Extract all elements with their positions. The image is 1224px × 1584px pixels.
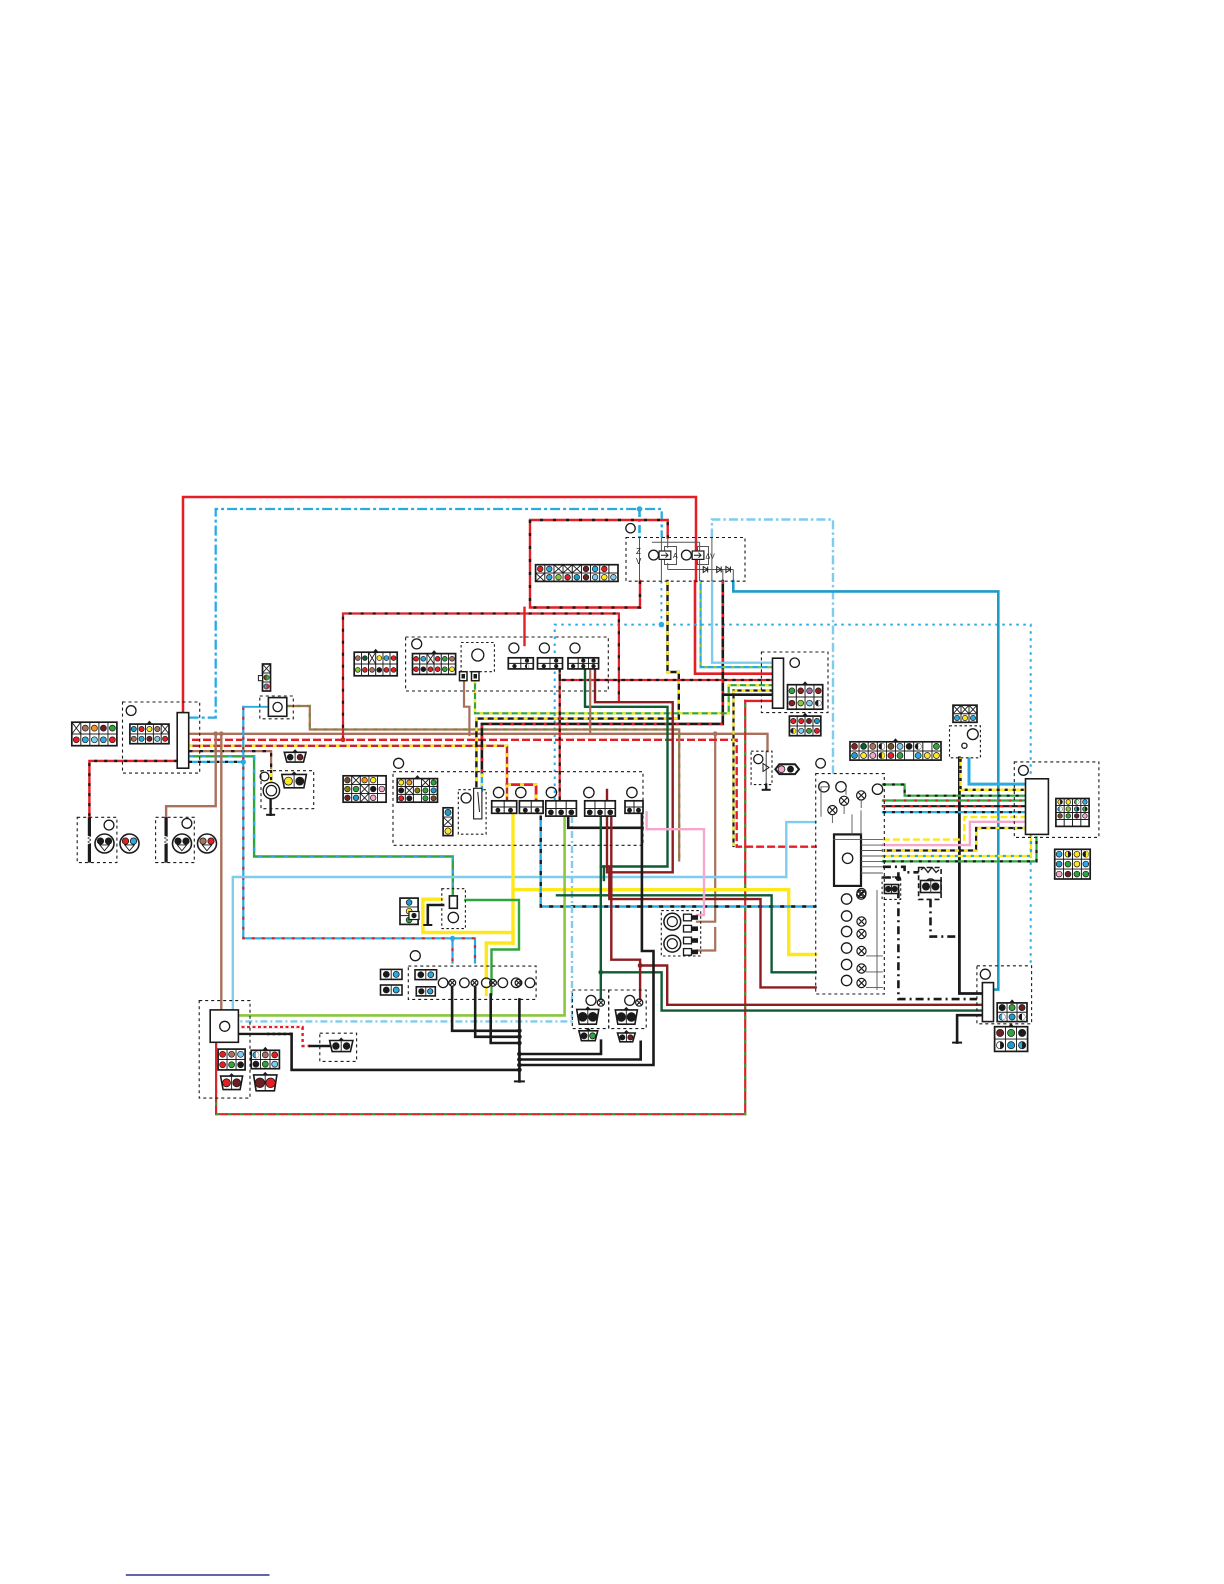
junction bus (517, 1041, 522, 1046)
wire R bar bottom row (745, 700, 772, 702)
diode chain (703, 567, 708, 573)
box joint connectors (408, 966, 536, 999)
turn signal 2 joint (636, 999, 643, 1006)
wire R bottom dash loop (216, 701, 745, 1114)
box meter CDI (816, 774, 885, 994)
wire B/R meter row (883, 805, 1026, 807)
circle CDI (842, 853, 852, 863)
circle key switch (472, 649, 484, 661)
wire R main to CDI bar (695, 581, 773, 674)
junction cyan (659, 622, 665, 628)
connector license 2pin (885, 885, 899, 894)
unit flasher relay (268, 698, 286, 717)
wire G/Y ignition to bar (475, 680, 773, 713)
wire L/W switch drop (239, 816, 572, 1021)
wire R/Y start switch (507, 785, 536, 801)
circle meter3 (872, 784, 882, 794)
circle ignition box ref (412, 639, 422, 649)
connector turn2 lower 2pin (618, 1030, 636, 1042)
wire R maroon coil (595, 669, 673, 872)
junction bus (517, 1063, 522, 1068)
meter lamp (857, 791, 866, 800)
connector fuse block 3 (568, 658, 599, 669)
wire Br/W flasher out (287, 706, 679, 861)
connector ignition 10pin (413, 650, 456, 674)
wire B dotted regulator (267, 1033, 292, 1036)
circle 20pin ref (816, 759, 826, 769)
circle sidestand diode ref (754, 755, 763, 764)
circle clutch switch (448, 912, 458, 922)
wire Br bundle row (189, 734, 768, 751)
circle meter1 (819, 782, 829, 792)
wire Y/B to bar (734, 689, 773, 691)
connector regulator 6pin B (251, 1047, 279, 1069)
CDI pin circle (841, 911, 851, 921)
horn (263, 782, 279, 798)
wire L cyan dotted bus (555, 625, 1031, 966)
CDI pin circle (841, 975, 851, 985)
wire Br regulator (220, 734, 222, 1010)
wire B turn1 to bus (519, 1041, 601, 1054)
wire R dotted pickup (239, 1026, 303, 1028)
relay contact 1 (659, 551, 671, 559)
relay internals (640, 538, 734, 582)
junction L/B (637, 506, 643, 512)
box clutch diode (458, 790, 486, 835)
wire B turn2 to bus (519, 1042, 640, 1060)
connector regulator 6pin A (218, 1049, 245, 1070)
wire B/W resistor feed (883, 867, 919, 873)
wire Lime switch drop (239, 816, 565, 1015)
bar CDI connector (773, 658, 784, 708)
wire B/R relay drop (482, 581, 723, 774)
circle handlebar ref (394, 758, 404, 768)
wire B regulator bus down (292, 1034, 520, 1070)
wire B/Y relay drop (476, 581, 678, 790)
junction L/R joint (450, 936, 455, 941)
CDI pin circle (841, 926, 851, 936)
wire L/B relay to bar (701, 581, 773, 667)
relay contact 2 (692, 551, 704, 559)
connector regulator 2pin B (254, 1072, 277, 1091)
junction bus (517, 1068, 522, 1073)
box headlight left (77, 817, 117, 862)
turn signal 2 lamp (625, 995, 635, 1005)
joint connector (438, 978, 448, 988)
circle switch3 ref (546, 787, 556, 797)
bullet joint (449, 979, 456, 986)
switch block start (625, 801, 643, 814)
wire R/W handlebar branch (343, 614, 619, 740)
circle ECU ref (1019, 766, 1029, 776)
footer rule (126, 1574, 270, 1576)
connector joint 4pin B (416, 987, 435, 996)
joint connector (525, 978, 535, 988)
wire R maroon turnsignal (611, 817, 640, 999)
ground rear (952, 1042, 962, 1044)
switch block dimmer (519, 801, 543, 814)
wire Dg to rear bar (601, 972, 983, 1010)
wire R maroon to rear bar (640, 966, 982, 1005)
wire G joint below (490, 988, 492, 995)
connector horn 2pin (284, 749, 306, 762)
wire R maroon long to CDI (609, 867, 815, 988)
wire B clutch ground (428, 905, 443, 924)
junction Br regulator (219, 731, 224, 736)
wire Dg long upper (603, 867, 605, 881)
circle switch4 ref (584, 787, 594, 797)
wire Y ECU upper (961, 770, 1026, 790)
turn signal 1 joint (597, 999, 604, 1006)
circle fuse2 ref (539, 643, 549, 653)
headlight resistor lead (88, 817, 91, 862)
connector main harness 18pin (536, 565, 618, 582)
connector turn2 2pin (615, 1007, 637, 1024)
junction Dg (598, 970, 603, 975)
wire G clutch switch (465, 900, 519, 978)
bullet joint (471, 979, 478, 986)
wire R/B fuse loop (530, 520, 668, 608)
wire Br headlight right (166, 734, 216, 818)
connector handlebar left 12pin (343, 776, 386, 802)
wire Y neutral jog (883, 817, 1026, 840)
box sidestand diode (751, 751, 772, 784)
joint connector (498, 978, 508, 988)
joint connector (511, 978, 521, 988)
unit clutch diode (449, 896, 457, 908)
box ignition switch (406, 637, 609, 691)
box main switch (123, 702, 200, 773)
wire B/W tail feed (898, 872, 977, 999)
meter lamp (840, 796, 849, 805)
box ignition coils (661, 911, 700, 956)
junction tail (896, 876, 901, 881)
circle switch5 ref (627, 787, 637, 797)
connector sidestand T 3pin (400, 898, 418, 924)
circle fuse3 ref (570, 643, 580, 653)
wire G/B meter row (883, 837, 1037, 861)
wire Br conn3 drop (589, 669, 591, 734)
circle switch1 ref (493, 787, 503, 797)
connector main switch 10pin A (72, 722, 117, 746)
meter lamp (828, 806, 837, 815)
connector accessory tab (258, 676, 262, 681)
circle relay box ref (626, 524, 635, 533)
circle horn ref (260, 772, 269, 781)
wire B regulator to bus (239, 1033, 292, 1035)
headlight resistor lead (165, 817, 168, 862)
box ignition inner (461, 643, 494, 672)
circle neutral sw (962, 743, 967, 748)
wire L/B flasher stub (243, 706, 268, 708)
CDI lamp (857, 978, 866, 987)
ground horn (266, 814, 275, 816)
junction bus (517, 1057, 522, 1062)
wire R/W bundle row (189, 740, 816, 847)
wire B switchblock drop (519, 813, 653, 1066)
wire L/B bundle row (189, 761, 243, 763)
connector CDI 8pin upper (788, 681, 823, 709)
wire L cyan dotted relay drop (660, 581, 662, 625)
relay coil 2 (682, 550, 692, 560)
wire Br drop to coil (697, 734, 715, 922)
box license light (882, 877, 901, 900)
wire Br diode box (766, 750, 768, 752)
switch block turn (546, 801, 577, 816)
wire B pickup link (310, 1045, 330, 1048)
circle resistor ref (926, 879, 936, 889)
wire B joint drop2 (475, 988, 519, 1037)
box rectifier regulator (199, 1001, 250, 1099)
box turn signal left (572, 990, 608, 1029)
connector rear 6pin A (997, 999, 1027, 1021)
wire R/Y bundle row (189, 746, 507, 785)
headlight bulb 1 (95, 834, 114, 853)
box flasher relay (260, 696, 294, 719)
connector turn1 lower 2pin (579, 1028, 598, 1041)
CDI lamp (857, 888, 866, 897)
connector joint 4pin A (415, 970, 437, 980)
connector joint 4pin L1 (381, 969, 403, 979)
CDI lamp (857, 929, 866, 938)
connector handlebar 3pin (443, 808, 453, 836)
bullet joint (490, 979, 497, 986)
wire R/B headlight (89, 761, 177, 817)
connector harness 20pin (850, 738, 941, 760)
circle main sw ref (126, 706, 136, 716)
ignition coil 1 (664, 913, 681, 930)
wire Dg long to CDI (557, 895, 816, 972)
CDI pin circle (841, 943, 851, 953)
CDI pin circle (841, 959, 851, 969)
relay coil 1 (649, 550, 659, 560)
box turn signal right (609, 990, 647, 1029)
wire B/W resistor down (931, 899, 958, 936)
bar ECU connector (1026, 779, 1049, 835)
connector ignition 12pin (354, 649, 397, 676)
CDI internal wires (833, 840, 883, 990)
wire Sb teal main (733, 581, 998, 990)
joint connector (482, 978, 492, 988)
connector accessory 3pin (263, 664, 271, 691)
wire B rear ground (957, 1015, 982, 1042)
switch lever ignition (474, 788, 482, 819)
svg-text:V: V (636, 557, 642, 566)
pickup coil connector oval (775, 764, 799, 774)
wire Br coil lower (697, 928, 715, 951)
wire L relay to bar (712, 581, 772, 663)
box starter relay (626, 538, 745, 582)
wire R regulator inner drop (215, 1042, 217, 1098)
junction Br (713, 731, 718, 736)
box handlebar switches (393, 772, 643, 846)
wire B/W license row (883, 876, 899, 879)
wire B neutral (959, 758, 982, 994)
ground clutch switch (423, 924, 432, 926)
terminal ignition lug 2 (472, 672, 480, 681)
circle switch2 ref (516, 787, 526, 797)
connector ECU 12pin (1055, 849, 1091, 879)
wire diode box internal (765, 751, 767, 783)
wire B/Y meter row (883, 828, 1026, 851)
wire Y clutch loop (423, 899, 513, 932)
unit rectifier regulator (210, 1010, 238, 1042)
circle meter2 (836, 782, 846, 792)
switch block engine stop (585, 801, 616, 816)
wire R/B kill row (560, 669, 773, 800)
circle clutch lever ref (461, 793, 471, 803)
junction Br headlight (213, 731, 218, 736)
CDI pin circle (841, 894, 851, 904)
circle regulator (220, 1021, 230, 1031)
connector turn1 2pin (577, 1006, 599, 1024)
wire Y/B horn drop (270, 770, 272, 783)
wire R/B dimmer drop (506, 785, 508, 801)
wire L/W pale dash-dot (712, 520, 833, 774)
connector regulator 2pin A (221, 1073, 243, 1090)
wire Y/B neutral to ECU (959, 759, 961, 770)
wire Dg turnsignal feed (600, 816, 602, 999)
circle CDI bar ref (790, 658, 799, 667)
circle fuse1 ref (509, 643, 519, 653)
meter lamp (857, 890, 866, 899)
wire L/B flasher branch (451, 938, 453, 962)
connector main switch 10pin B (130, 721, 169, 744)
wire Br terminal drop (464, 681, 469, 735)
wire R key switch drop (523, 608, 525, 645)
junction L/B flasher (241, 759, 246, 764)
wire L regulator (233, 822, 816, 1010)
connector tail 2pin (921, 881, 942, 893)
terminal sidestand (762, 789, 771, 791)
bar main switch connector (177, 713, 189, 769)
headlight bulb 4 (198, 834, 217, 853)
meter unit pin wires (861, 840, 883, 873)
unit CDI igniter (834, 834, 861, 886)
wire B ground bus (518, 999, 521, 1081)
wire B switch cross (568, 818, 642, 828)
box pickup coil (320, 1033, 357, 1061)
junction bus (517, 1052, 522, 1057)
connector pickup 2pin (330, 1038, 353, 1052)
circle headlight2 ref (182, 819, 192, 829)
headlight bulb 3 (173, 834, 192, 853)
connector ECU 16pin (1056, 799, 1089, 827)
box headlight right (156, 817, 195, 862)
connector fuse block 2 (538, 658, 563, 669)
wire B thick to bar (723, 693, 773, 696)
box rear harness (977, 966, 1032, 1024)
wire P meter row (883, 822, 1026, 845)
circle neutral ref (967, 729, 978, 740)
circle rear ref (980, 969, 990, 979)
wire Y joint below (485, 988, 488, 995)
wire B joint drop1 (452, 988, 519, 1031)
wire G meter row (883, 799, 1026, 801)
junction maroon (638, 963, 643, 968)
box horn (261, 771, 314, 809)
wire L/B flasher drop (243, 707, 475, 963)
svg-text:A: A (673, 553, 678, 560)
wire Br/B bundle row to horn (189, 751, 271, 783)
CDI lamp (857, 946, 866, 955)
coil terminals (684, 914, 692, 921)
resistor tail (921, 867, 939, 872)
circle headlight1 ref (104, 820, 114, 830)
switch block lights (492, 801, 517, 814)
circle joint ref (410, 951, 420, 961)
box tail resistor (919, 868, 942, 900)
joint connector (460, 978, 470, 988)
wire R main battery loop (183, 497, 696, 713)
connector sidestand side cell (409, 912, 419, 920)
svg-text:ΔV: ΔV (706, 554, 716, 561)
CDI lamp (857, 964, 866, 973)
junction bus (517, 1029, 522, 1034)
wire Y start switch (511, 813, 514, 943)
box CDI connector (761, 652, 828, 713)
box ECU (1014, 762, 1099, 838)
box neutral switch (950, 726, 981, 758)
bar rear connector (982, 983, 993, 1022)
connector CDI 8pin lower (789, 713, 820, 736)
wire L neutral to ECU (969, 759, 1026, 784)
ignition coil 2 (664, 935, 681, 952)
wire L/B meter row (883, 811, 1026, 813)
wire Y/B drop (732, 691, 734, 847)
wire R regulator drop (215, 1041, 217, 1043)
wire B horn ground (269, 798, 271, 815)
wire L/B relay branch (638, 509, 641, 538)
box sidestand switch (442, 889, 466, 929)
wire Y to CDI (513, 890, 816, 955)
wire L/B main dash-dot (189, 509, 662, 718)
meter wiring (821, 787, 861, 835)
connector horn switch 2pin (282, 771, 307, 787)
wire B joint drop3 (491, 995, 520, 1043)
connector joint 4pin L2 (381, 985, 403, 995)
CDI lamp (857, 917, 866, 926)
circle flasher (273, 702, 282, 711)
svg-text:Z: Z (636, 547, 641, 556)
wire P coil (647, 813, 704, 916)
bullet joint (515, 979, 522, 986)
wire R dotted pickup2 (303, 1027, 310, 1046)
turn signal 1 lamp (586, 995, 596, 1005)
ground main (514, 1080, 525, 1082)
wire Lime regulator row (238, 1014, 240, 1016)
wire L/Y meter row (883, 837, 1031, 856)
wire Dg coil connector (585, 669, 668, 867)
junction R/W (341, 737, 346, 742)
wire Y to joint (486, 943, 513, 978)
junction bus (517, 1035, 522, 1040)
terminal ignition lug 1 (460, 672, 468, 681)
connector neutral 6pin (953, 705, 977, 722)
wire L switch drop (541, 816, 816, 907)
connector rear 6pin B (995, 1023, 1028, 1051)
wire G bundle row (189, 756, 453, 896)
wire L clutch segment (481, 774, 483, 791)
connector handlebar right 12pin (397, 775, 437, 802)
headlight bulb 2 (120, 834, 139, 853)
wire G/W meter row (883, 785, 1026, 796)
connector fuse block 1 (508, 658, 533, 669)
